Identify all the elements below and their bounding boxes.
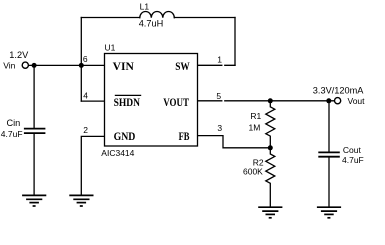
svg-text:Cout: Cout bbox=[343, 145, 362, 155]
wire node6 down to pin4 bbox=[80, 65, 82, 101]
svg-text:Cin: Cin bbox=[7, 118, 21, 128]
svg-text:AIC3414: AIC3414 bbox=[101, 148, 134, 158]
node junction dot VOUT/R1 bbox=[268, 98, 273, 103]
ground (pin2 GND) bbox=[69, 195, 93, 206]
capacitor Cin bbox=[24, 129, 46, 134]
resistor R1 bbox=[266, 101, 275, 148]
wire pin3 FB to divider bbox=[198, 136, 271, 148]
wire Vin node down to Cin bbox=[33, 65, 35, 128]
node junction dot pin6/inductor bbox=[79, 63, 84, 68]
node junction dot Vin/Cin bbox=[32, 63, 37, 68]
svg-text:R1: R1 bbox=[250, 111, 261, 121]
wire vertical left of top loop bbox=[80, 18, 82, 66]
svg-text:1.2V: 1.2V bbox=[9, 50, 29, 60]
svg-text:FB: FB bbox=[179, 131, 190, 143]
wire Vin to VIN pin6 bbox=[29, 64, 105, 66]
node junction dot VOUT/Cout bbox=[326, 98, 331, 103]
wire pin2 bbox=[81, 136, 104, 195]
svg-text:4: 4 bbox=[83, 91, 88, 101]
op-amp U1 box AIC3414 bbox=[105, 54, 198, 147]
svg-text:5: 5 bbox=[216, 91, 221, 101]
inductor L1 bbox=[140, 12, 175, 18]
overline for SHDN bbox=[115, 94, 141, 96]
wire vertical right of top loop to SW bbox=[234, 18, 236, 66]
wire pin5 VOUT to Vout terminal bbox=[198, 100, 335, 102]
wire top loop right segment bbox=[174, 17, 235, 19]
wire Vout node down to Cout bbox=[328, 101, 330, 152]
svg-text:Vout: Vout bbox=[348, 96, 366, 106]
ground (Cin) bbox=[22, 195, 46, 206]
svg-text:VOUT: VOUT bbox=[163, 97, 189, 109]
svg-text:SHDN: SHDN bbox=[114, 97, 141, 109]
wire Cout to ground bbox=[328, 157, 330, 207]
svg-text:VIN: VIN bbox=[113, 61, 135, 73]
wire Cin to ground bbox=[33, 134, 35, 196]
svg-text:1M: 1M bbox=[249, 123, 261, 133]
svg-text:3: 3 bbox=[217, 123, 222, 133]
node junction dot R1/R2/FB bbox=[268, 145, 273, 150]
svg-text:GND: GND bbox=[114, 131, 136, 143]
capacitor Cout bbox=[318, 152, 340, 156]
terminal Vin (open circle) bbox=[22, 62, 28, 68]
resistor R2 bbox=[266, 148, 275, 207]
svg-text:4.7uF: 4.7uF bbox=[1, 129, 23, 139]
svg-text:3.3V/120mA: 3.3V/120mA bbox=[313, 85, 364, 95]
svg-text:U1: U1 bbox=[105, 43, 116, 53]
ground (Cout) bbox=[317, 207, 341, 218]
svg-text:4.7uF: 4.7uF bbox=[342, 155, 364, 165]
terminal Vout (open circle) bbox=[335, 98, 341, 104]
wire pin4 bbox=[81, 100, 104, 102]
svg-text:Vin: Vin bbox=[3, 60, 15, 70]
wire top loop left segment bbox=[81, 17, 140, 19]
svg-text:L1: L1 bbox=[140, 1, 150, 11]
ground (R2) bbox=[258, 207, 282, 218]
svg-text:4.7uH: 4.7uH bbox=[139, 19, 164, 29]
svg-text:SW: SW bbox=[175, 61, 190, 73]
svg-text:2: 2 bbox=[83, 125, 88, 135]
svg-text:1: 1 bbox=[217, 55, 222, 65]
svg-text:6: 6 bbox=[83, 54, 88, 64]
svg-text:600K: 600K bbox=[243, 166, 263, 176]
wire pin1 SW stub bbox=[198, 64, 236, 66]
